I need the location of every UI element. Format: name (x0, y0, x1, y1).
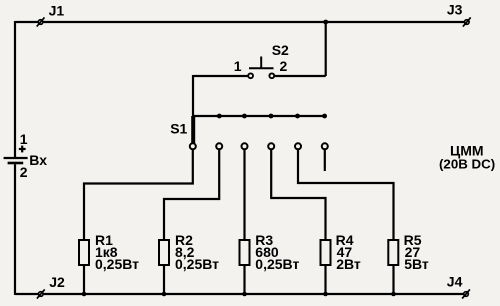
battery pin 2 label (20, 164, 28, 180)
wire bottom rail J2-J4 (15, 293, 464, 295)
label R3 value (255, 232, 299, 272)
svg-text:1: 1 (20, 131, 28, 147)
wire S2 left lead (193, 75, 248, 77)
label S1 (170, 121, 187, 137)
S1 contact 5 (295, 143, 301, 149)
connector J3 (463, 17, 471, 26)
wire contact1 to R1 (84, 149, 193, 240)
connector J2 (37, 289, 45, 298)
label Bx (29, 152, 47, 168)
resistor R4 (321, 240, 331, 265)
junction top rail / S2 branch (323, 20, 328, 25)
junction R2 bottom (162, 292, 167, 297)
junction bus tap 2 (217, 114, 222, 119)
wire S2 to top rail (325, 22, 327, 76)
svg-text:2Вт: 2Вт (336, 256, 361, 272)
wire contact5 to R5 (298, 149, 394, 240)
label R5 value (404, 232, 429, 272)
wire R2 bottom lead (163, 265, 165, 294)
svg-text:0,25Вт: 0,25Вт (255, 256, 299, 272)
wire contact4 to R4 (271, 149, 325, 240)
svg-text:Bx: Bx (29, 152, 47, 168)
svg-text:5Вт: 5Вт (404, 256, 429, 272)
wire R3 bottom lead (243, 265, 245, 294)
S2 pin 1 label (234, 58, 242, 74)
svg-text:0,25Вт: 0,25Вт (175, 256, 219, 272)
svg-text:2: 2 (280, 58, 288, 74)
battery pin 1 label (20, 131, 28, 147)
resistor R5 (388, 240, 398, 265)
label S2 (272, 42, 289, 58)
resistor R3 (240, 240, 250, 265)
S1 contact 3 (242, 143, 248, 149)
wire R4 bottom lead (324, 265, 326, 294)
svg-text:2: 2 (20, 164, 28, 180)
svg-text:S2: S2 (272, 42, 289, 58)
junction bus tap 3 (242, 114, 247, 119)
junction R3 bottom (242, 292, 247, 297)
label J3 (447, 2, 463, 18)
svg-text:J1: J1 (49, 3, 65, 19)
connector J1 (37, 17, 45, 26)
wire S2 right lead (274, 75, 326, 77)
label J1 (49, 3, 65, 19)
wire contact3 to R3 (243, 149, 245, 240)
label J4 (447, 273, 463, 289)
junction R5 bottom (391, 292, 396, 297)
label R1 value (95, 232, 139, 272)
S2 pin 2 label (280, 58, 288, 74)
S1 contact 1 (190, 143, 196, 149)
wire R1 bottom lead (83, 265, 85, 294)
svg-text:0,25Вт: 0,25Вт (95, 256, 139, 272)
wire S2 to S1 bus (192, 75, 194, 116)
label CMM meter (439, 143, 495, 172)
svg-text:J4: J4 (447, 273, 463, 289)
S1 contact 6 (322, 143, 328, 149)
switch S2 pushbutton (248, 57, 274, 79)
svg-text:J2: J2 (49, 274, 65, 290)
svg-text:1: 1 (234, 58, 242, 74)
svg-text:S1: S1 (170, 121, 187, 137)
S1 contact 2 (216, 143, 222, 149)
S1 contact 4 (268, 143, 274, 149)
wire top rail J1-J3 (15, 21, 465, 23)
junction R4 bottom (323, 292, 328, 297)
svg-text:(20В DC): (20В DC) (439, 156, 495, 171)
junction bus tap 5 (295, 114, 300, 119)
wire R5 bottom lead (392, 265, 394, 294)
label R4 value (336, 232, 361, 272)
connector J4 (462, 289, 470, 298)
resistor R2 (159, 240, 169, 265)
svg-text:J3: J3 (447, 2, 463, 18)
label J2 (49, 274, 65, 290)
wire contact6 stub (324, 149, 326, 171)
junction R1 bottom (82, 292, 87, 297)
resistor R1 (79, 240, 89, 265)
label R2 value (175, 232, 219, 272)
junction bus tap 4 (269, 114, 274, 119)
battery Bx (4, 158, 28, 163)
switch S1 wiper (191, 116, 195, 143)
S1 rotor bus (193, 115, 326, 117)
wire left vertical rail (14, 21, 16, 295)
battery plus label (19, 146, 26, 153)
wire contact2 to R2 (164, 149, 219, 240)
junction bus tap 6 (322, 114, 327, 119)
